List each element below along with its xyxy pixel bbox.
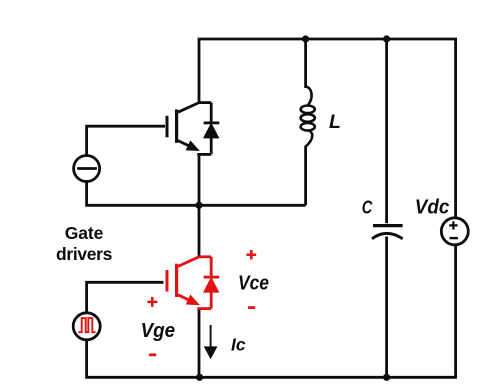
svg-text:drivers: drivers — [56, 244, 113, 264]
wire: Q2 emitter to bottom rail — [198, 309, 201, 378]
polarity - (Vce) — [248, 306, 255, 309]
transistor Q1 (top IGBT, black) — [167, 103, 211, 155]
pulse waveform symbol — [78, 318, 95, 332]
inductor L — [301, 87, 315, 147]
node: bottom rail / Q2 emitter junction — [196, 374, 203, 381]
wire: inductor branch verticals — [304, 39, 307, 205]
wire: top rail from Q1 collector to Vdc branch — [199, 39, 456, 218]
wire: lower gate-driver to Q2 gate — [87, 282, 164, 313]
source V1 (upper gate driver supply) — [74, 156, 100, 182]
svg-text:Vdc: Vdc — [415, 196, 450, 218]
svg-text:L: L — [329, 111, 341, 133]
wire: Q1 emitter to mid rail — [198, 154, 201, 205]
wire: upper gate-driver to Q1 gate — [87, 126, 165, 155]
polarity + (Vce) — [246, 250, 256, 259]
svg-text:Ic: Ic — [231, 334, 246, 354]
source V2 (pulse generator, gate signal) — [73, 313, 100, 340]
node: top rail / capacitor junction — [383, 35, 390, 42]
wire: bottom rail — [87, 245, 456, 377]
wire: mid rail (gate-driver return / phase node) — [87, 182, 306, 206]
svg-text:Gate: Gate — [65, 223, 104, 243]
capacitor C — [372, 226, 403, 239]
svg-text:C: C — [362, 197, 373, 217]
source Vdc — [441, 218, 468, 245]
wire: mid rail to Q2 collector — [198, 205, 201, 257]
diode D2 (freewheel, bottom, red) — [204, 257, 220, 309]
svg-text:Vce: Vce — [238, 273, 269, 295]
polarity - (Vge) — [149, 353, 156, 356]
arrow: Ic current — [204, 325, 218, 359]
polarity + (Vge) — [147, 297, 157, 307]
node: mid rail / phase junction — [195, 202, 202, 209]
diode D1 (freewheel, top) — [204, 103, 220, 155]
node: bottom rail / capacitor junction — [383, 374, 390, 381]
transistor Q2 (bottom IGBT, red) — [167, 257, 211, 309]
node: top rail / inductor junction — [302, 35, 309, 42]
svg-text:Vge: Vge — [141, 320, 176, 342]
wire: capacitor branch verticals — [385, 39, 388, 377]
